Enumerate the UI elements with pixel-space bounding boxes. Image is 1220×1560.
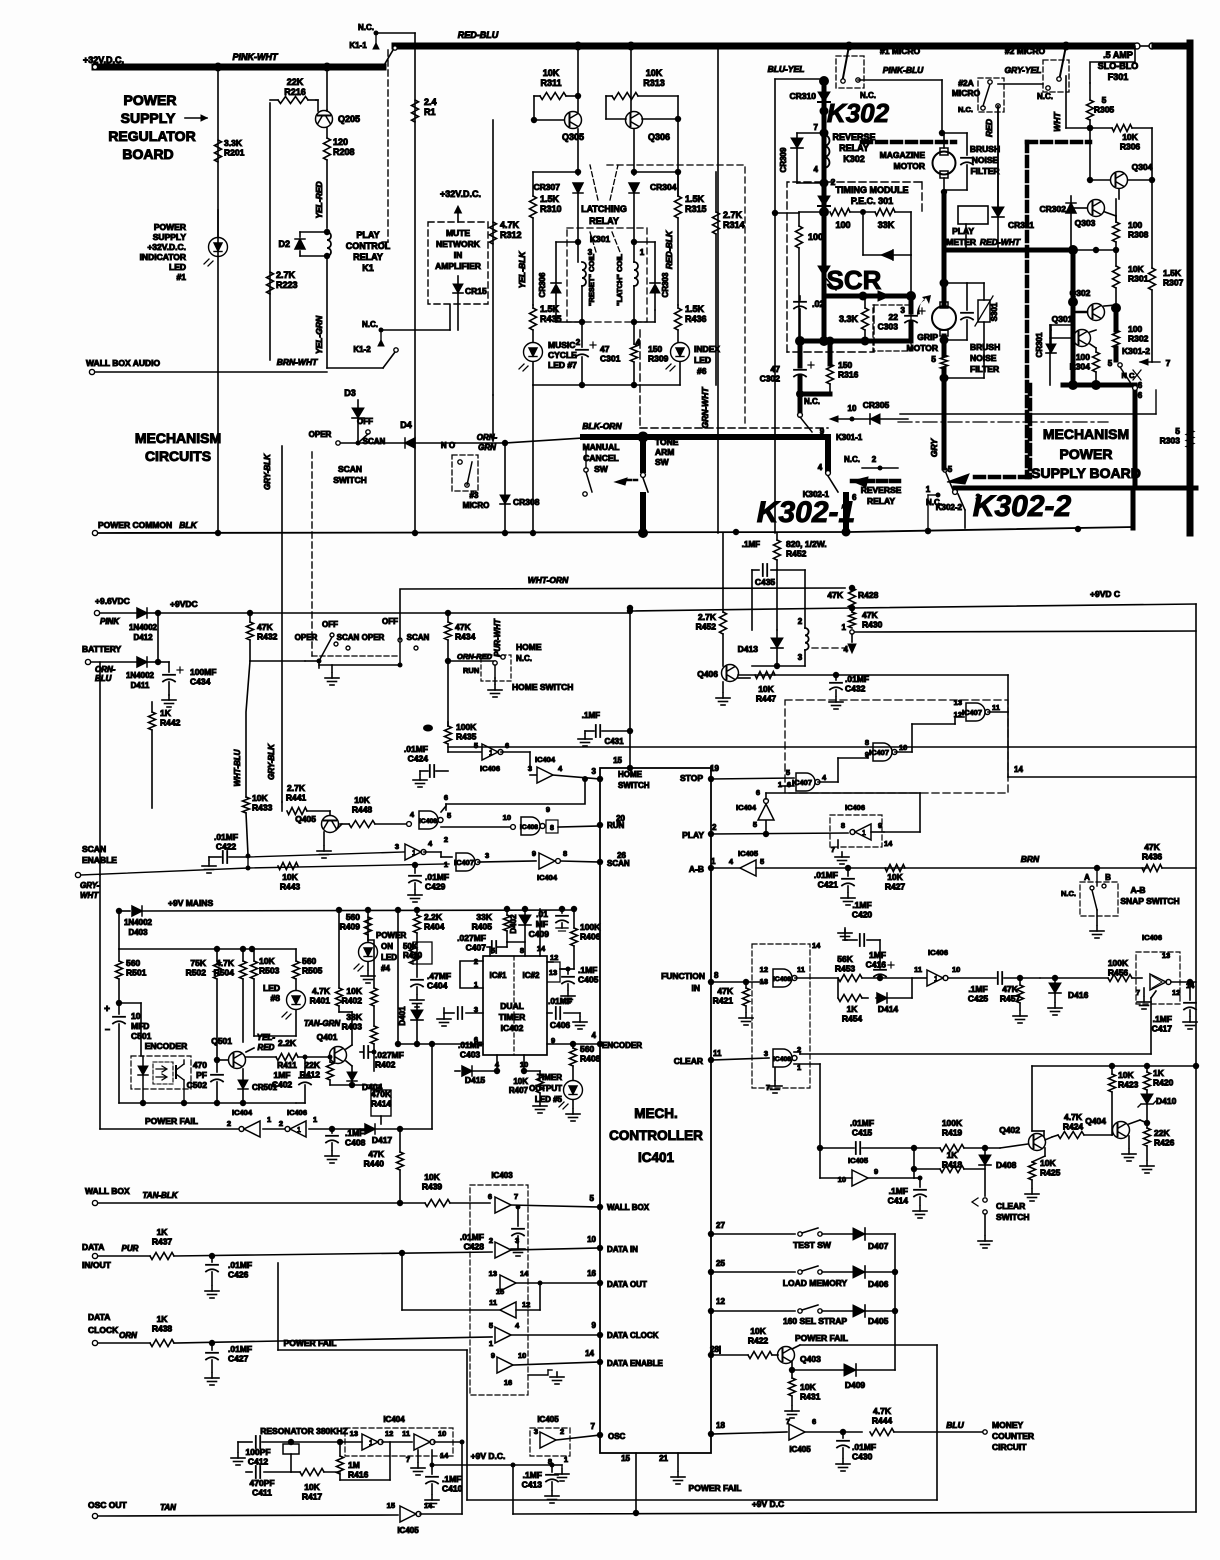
wire reverse dash bbox=[852, 479, 900, 484]
wire r401 bot bbox=[339, 1011, 352, 1013]
svg-text:12: 12 bbox=[522, 1300, 530, 1309]
svg-text:10KR439: 10KR439 bbox=[422, 1172, 443, 1192]
resistor R432 47K bbox=[249, 613, 251, 622]
svg-text:7: 7 bbox=[591, 1422, 596, 1431]
svg-text:1: 1 bbox=[267, 1115, 271, 1124]
gate IC407b bbox=[873, 743, 897, 761]
svg-text:CIRCUITS: CIRCUITS bbox=[145, 448, 211, 464]
svg-text:7: 7 bbox=[514, 1192, 518, 1201]
svg-text:8: 8 bbox=[520, 946, 524, 955]
svg-text:2: 2 bbox=[712, 823, 717, 832]
svg-text:PLAY: PLAY bbox=[682, 830, 704, 840]
diode CR301 bbox=[1050, 330, 1052, 344]
svg-text:GRY-BLK: GRY-BLK bbox=[263, 453, 272, 490]
dash mech board top bbox=[639, 330, 641, 428]
svg-text:470PFC411: 470PFC411 bbox=[249, 1478, 274, 1498]
capacitor brush filter bbox=[961, 157, 973, 159]
svg-text:–: – bbox=[105, 1024, 110, 1034]
svg-text:WHT-ORN: WHT-ORN bbox=[528, 575, 569, 585]
svg-text:9: 9 bbox=[491, 1351, 495, 1360]
motor grip bbox=[932, 306, 956, 330]
svg-text:6: 6 bbox=[812, 1417, 816, 1426]
svg-text:OFF: OFF bbox=[322, 620, 338, 629]
wire K302 coil bus bbox=[822, 81, 827, 210]
wire pin1 col bbox=[819, 1064, 821, 1178]
svg-text:10KR427: 10KR427 bbox=[885, 872, 906, 892]
wire scr gate bbox=[824, 276, 836, 290]
diode CR15 bbox=[453, 284, 463, 293]
diode CR309 bbox=[796, 133, 798, 138]
resistor R448 10K bbox=[340, 823, 349, 825]
resistor R315 1.5K bbox=[677, 172, 679, 196]
svg-text:IC407: IC407 bbox=[454, 858, 474, 867]
wire r406 to 13 bbox=[560, 968, 574, 970]
svg-text:100KR435: 100KR435 bbox=[456, 722, 477, 742]
svg-text:TAN-BLK: TAN-BLK bbox=[143, 1191, 179, 1200]
resistor 100 h bbox=[830, 209, 850, 216]
wire clear out long bbox=[800, 1053, 1151, 1055]
wire se line2 bbox=[81, 864, 446, 875]
svg-text:10KR306: 10KR306 bbox=[1120, 132, 1141, 152]
wire q302 thick bbox=[1114, 308, 1119, 330]
svg-text:DATA ENABLE: DATA ENABLE bbox=[607, 1359, 664, 1368]
wire q305 col bbox=[577, 46, 579, 112]
switch 160 SEL bbox=[798, 1309, 802, 1313]
svg-text:A: A bbox=[1084, 873, 1090, 882]
svg-text:BRUSH: BRUSH bbox=[970, 342, 1000, 352]
dash-dot bbox=[898, 421, 1108, 423]
gate IC403f bbox=[497, 1357, 513, 1373]
wire cr309 bottom bbox=[797, 182, 824, 184]
svg-text:R428: R428 bbox=[858, 590, 879, 600]
dashed timing box bbox=[787, 182, 922, 352]
svg-text:.01MFC403: .01MFC403 bbox=[458, 1040, 482, 1060]
svg-text:D413: D413 bbox=[738, 644, 759, 654]
varistor S301 bbox=[983, 283, 985, 300]
svg-text:YEL-GRN: YEL-GRN bbox=[314, 315, 324, 354]
svg-text:12: 12 bbox=[716, 1297, 725, 1306]
svg-text:N C: N C bbox=[1122, 371, 1136, 380]
wire red-blu bus bbox=[395, 43, 1133, 50]
svg-text:POWER FAIL: POWER FAIL bbox=[689, 1483, 742, 1493]
svg-text:14: 14 bbox=[440, 1451, 449, 1460]
svg-text:CONTROLLER: CONTROLLER bbox=[609, 1128, 703, 1143]
wire func in bbox=[711, 981, 766, 983]
wire +32VDC pink-wht bus bbox=[95, 64, 383, 71]
svg-text:#8: #8 bbox=[271, 993, 281, 1003]
wire enc loop bbox=[119, 1002, 141, 1004]
diode CR304 bbox=[629, 183, 639, 193]
svg-text:IC401: IC401 bbox=[638, 1150, 675, 1165]
svg-text:.01: .01 bbox=[536, 909, 548, 919]
wire k302-1 col bbox=[722, 533, 724, 588]
resistor R216 22K bbox=[278, 97, 308, 104]
svg-text:DATA: DATA bbox=[82, 1242, 104, 1252]
capacitor C435 bbox=[752, 569, 759, 571]
svg-text:RUN: RUN bbox=[607, 821, 625, 830]
svg-text:POWER FAIL: POWER FAIL bbox=[795, 1333, 848, 1343]
svg-text:RUN: RUN bbox=[463, 666, 479, 675]
wire 2a micro down bbox=[997, 106, 999, 213]
wire blu-yel bbox=[775, 78, 820, 80]
wire home sw bbox=[448, 660, 495, 662]
transistor Q303 bbox=[1088, 200, 1105, 217]
wire orn-grn bbox=[455, 442, 505, 444]
svg-text:DATA: DATA bbox=[88, 1312, 110, 1322]
svg-text:LED #7: LED #7 bbox=[548, 360, 577, 370]
svg-text:GRY-BLK: GRY-BLK bbox=[267, 743, 276, 780]
blob bbox=[423, 725, 433, 732]
svg-text:RED: RED bbox=[258, 1043, 275, 1052]
svg-text:IC402: IC402 bbox=[501, 1023, 524, 1033]
svg-text:N O: N O bbox=[441, 441, 455, 450]
svg-text:1N4002: 1N4002 bbox=[126, 671, 155, 680]
svg-text:IC404: IC404 bbox=[383, 1415, 405, 1424]
resistor R505 560 bbox=[295, 949, 297, 961]
dashed c303 box bbox=[873, 305, 911, 351]
svg-text:POWER: POWER bbox=[124, 92, 177, 108]
svg-text:IC407: IC407 bbox=[869, 748, 889, 757]
svg-text:#2A: #2A bbox=[958, 78, 974, 88]
svg-text:SWITCH: SWITCH bbox=[618, 781, 650, 790]
svg-text:MICRO: MICRO bbox=[952, 88, 981, 98]
resistor R503 10K bbox=[251, 961, 258, 979]
gate IC403e bbox=[495, 1327, 511, 1343]
svg-text:#6: #6 bbox=[697, 366, 707, 376]
wire d40x col bbox=[894, 1311, 896, 1370]
capacitor C302 47 bbox=[798, 341, 803, 366]
svg-text:8: 8 bbox=[563, 849, 567, 858]
svg-text:7: 7 bbox=[1136, 988, 1140, 997]
svg-text:2.2KR404: 2.2KR404 bbox=[424, 912, 445, 932]
svg-text:MAGAZINE: MAGAZINE bbox=[880, 150, 926, 160]
svg-text:13: 13 bbox=[760, 977, 768, 986]
svg-text:9: 9 bbox=[874, 1167, 878, 1176]
svg-text:4.7KR312: 4.7KR312 bbox=[500, 220, 522, 240]
svg-text:Q301: Q301 bbox=[1052, 314, 1073, 324]
svg-text:BRN: BRN bbox=[1021, 854, 1040, 864]
svg-text:.1MFC425: .1MFC425 bbox=[968, 984, 989, 1004]
svg-text:10KR448: 10KR448 bbox=[352, 795, 373, 815]
wire osc out bbox=[98, 1515, 398, 1516]
gate IC403a bbox=[495, 1197, 511, 1213]
dashed encoder box bbox=[131, 1056, 191, 1089]
svg-text:DUAL: DUAL bbox=[500, 1001, 524, 1011]
svg-text:2: 2 bbox=[279, 1119, 283, 1128]
svg-text:14: 14 bbox=[424, 1501, 433, 1510]
relay K1 coil bbox=[327, 232, 331, 256]
svg-text:ORN-RED: ORN-RED bbox=[457, 652, 493, 661]
svg-text:SW: SW bbox=[594, 464, 609, 474]
wire ic406a out bbox=[529, 752, 531, 770]
wire d401 top bbox=[416, 977, 418, 1004]
svg-text:TAN: TAN bbox=[160, 1503, 176, 1512]
svg-text:OSC: OSC bbox=[608, 1432, 626, 1441]
wire q501 out bbox=[246, 1048, 254, 1052]
svg-text:TAN-GRN: TAN-GRN bbox=[304, 1019, 341, 1028]
svg-text:N.C.: N.C. bbox=[516, 654, 532, 663]
transistor Q302 bbox=[1088, 304, 1105, 321]
svg-text:11: 11 bbox=[402, 1429, 410, 1438]
svg-text:Q305: Q305 bbox=[562, 132, 584, 142]
svg-text:8: 8 bbox=[841, 821, 845, 830]
svg-text:ENCODER: ENCODER bbox=[602, 1041, 642, 1050]
thick scr node bbox=[822, 296, 827, 341]
wire home loop bbox=[582, 776, 588, 782]
svg-text:IC408: IC408 bbox=[773, 1056, 791, 1063]
svg-text:100KR419: 100KR419 bbox=[942, 1118, 963, 1138]
svg-text:TONE: TONE bbox=[655, 437, 679, 447]
wire pf net col bbox=[936, 1345, 938, 1500]
svg-text:ENCODER: ENCODER bbox=[145, 1041, 188, 1051]
resistor R313 10K bbox=[606, 95, 612, 97]
heavy dash boundary bbox=[862, 140, 955, 145]
svg-text:MF: MF bbox=[536, 919, 548, 929]
wire k301-2 down bbox=[1133, 390, 1138, 487]
svg-text:2.4R1: 2.4R1 bbox=[424, 97, 437, 117]
capacitor C421 .01MF bbox=[845, 865, 851, 871]
svg-text:POWER: POWER bbox=[376, 931, 406, 940]
svg-text:1: 1 bbox=[862, 830, 866, 837]
svg-text:K301-2: K301-2 bbox=[1122, 346, 1150, 356]
svg-text:11: 11 bbox=[992, 703, 1000, 712]
svg-text:12: 12 bbox=[550, 953, 558, 962]
wire latch bottoms bbox=[555, 310, 557, 322]
svg-text:470: 470 bbox=[193, 1060, 207, 1070]
svg-text:13: 13 bbox=[1162, 951, 1170, 960]
wire enc rail bbox=[118, 911, 120, 949]
svg-text:9: 9 bbox=[546, 805, 550, 814]
svg-text:5: 5 bbox=[753, 820, 757, 829]
svg-text:9: 9 bbox=[878, 821, 882, 830]
svg-text:#3: #3 bbox=[470, 491, 479, 500]
svg-text:1N4002: 1N4002 bbox=[129, 623, 158, 632]
svg-text:+9V MAINS: +9V MAINS bbox=[168, 898, 213, 908]
resistor R1 2.4 bbox=[412, 100, 419, 122]
diode D407 bbox=[853, 1228, 865, 1240]
wire pur-wht up bbox=[502, 588, 504, 657]
wire r432 to switch bbox=[250, 660, 305, 662]
svg-text:MECHANISM: MECHANISM bbox=[1043, 426, 1129, 442]
resistor R443 10K bbox=[278, 863, 298, 870]
svg-text:IC407: IC407 bbox=[962, 708, 982, 717]
wire pf vert bbox=[431, 1044, 433, 1129]
grip arrow bbox=[917, 295, 931, 315]
svg-text:D414: D414 bbox=[878, 1004, 899, 1014]
svg-text:IC408: IC408 bbox=[419, 818, 437, 825]
svg-text:4: 4 bbox=[592, 1031, 597, 1040]
svg-text:MECHANISM: MECHANISM bbox=[135, 430, 221, 446]
resistor R452b 2.7K bbox=[720, 612, 727, 634]
svg-text:GRY-: GRY- bbox=[80, 881, 100, 890]
svg-text:7: 7 bbox=[406, 1455, 410, 1464]
svg-text:BLK-ORN: BLK-ORN bbox=[582, 421, 622, 431]
svg-text:BLU: BLU bbox=[946, 1420, 964, 1430]
svg-text:13: 13 bbox=[549, 968, 557, 977]
resistor R436b 47K bbox=[1142, 865, 1162, 872]
wire b-a link bbox=[912, 723, 955, 725]
svg-text:4: 4 bbox=[844, 645, 849, 654]
transistor Q305 bbox=[565, 112, 582, 129]
svg-text:6: 6 bbox=[756, 788, 760, 797]
svg-text:K1-1: K1-1 bbox=[349, 41, 367, 50]
svg-text:D406: D406 bbox=[868, 1279, 889, 1289]
svg-text:RED-BLK: RED-BLK bbox=[664, 230, 674, 269]
svg-text:.01MFC415: .01MFC415 bbox=[850, 1118, 874, 1138]
diode CR307 bbox=[573, 183, 583, 193]
switch TEST SW bbox=[798, 1232, 802, 1236]
svg-text:CR311: CR311 bbox=[1008, 220, 1034, 230]
wire k302-2 bottom bbox=[964, 510, 966, 528]
svg-text:3: 3 bbox=[515, 1236, 519, 1245]
resistor R428 47K bbox=[849, 588, 856, 608]
svg-text:N.C.: N.C. bbox=[804, 397, 820, 406]
resistor R427 10K bbox=[885, 865, 905, 872]
wire bottom thick q30x bbox=[1063, 383, 1135, 388]
gate IC404e bbox=[362, 1434, 383, 1450]
svg-text:N.C.: N.C. bbox=[1061, 889, 1076, 898]
resistor R311 10K bbox=[534, 95, 540, 97]
svg-text:RED-WHT: RED-WHT bbox=[980, 237, 1021, 247]
svg-text:IC404: IC404 bbox=[535, 755, 556, 764]
svg-text:2: 2 bbox=[444, 835, 448, 844]
resistor R208 120 bbox=[326, 128, 328, 138]
svg-text:6: 6 bbox=[444, 793, 448, 802]
svg-text:ARM: ARM bbox=[655, 447, 674, 457]
svg-text:11: 11 bbox=[489, 1298, 497, 1307]
svg-text:D411: D411 bbox=[131, 681, 150, 690]
svg-text:5: 5 bbox=[760, 857, 764, 866]
svg-text:D2: D2 bbox=[278, 239, 290, 249]
diode D401 sym bbox=[416, 1004, 418, 1010]
svg-text:Q406: Q406 bbox=[697, 669, 718, 679]
wire K301-1 down bbox=[825, 437, 831, 470]
wire 4.7K R312 col bbox=[492, 120, 494, 395]
svg-text:100: 100 bbox=[835, 220, 850, 230]
wire q306 right bbox=[642, 118, 678, 120]
svg-text:.02: .02 bbox=[812, 299, 825, 309]
svg-text:GRIP: GRIP bbox=[917, 332, 938, 342]
svg-text:100: 100 bbox=[808, 232, 823, 242]
svg-text:Q402: Q402 bbox=[999, 1125, 1020, 1135]
svg-text:LED: LED bbox=[263, 983, 280, 993]
svg-text:IC405: IC405 bbox=[397, 1526, 419, 1535]
svg-text:GRY: GRY bbox=[929, 438, 939, 458]
svg-text:10: 10 bbox=[503, 813, 511, 822]
svg-text:22KR216: 22KR216 bbox=[284, 77, 306, 97]
svg-text:IC406: IC406 bbox=[480, 764, 500, 773]
wire 9v into c413 bbox=[551, 1464, 562, 1466]
thick scr bottom bbox=[800, 339, 911, 344]
svg-text:6: 6 bbox=[488, 1192, 492, 1201]
svg-text:WHT-BLU: WHT-BLU bbox=[233, 749, 242, 786]
svg-text:CR302: CR302 bbox=[1040, 204, 1067, 214]
svg-text:SCAN: SCAN bbox=[607, 859, 630, 868]
svg-text:.01MFC421: .01MFC421 bbox=[814, 870, 838, 890]
thick bottom mpsb bbox=[955, 486, 1196, 491]
svg-text:IC405: IC405 bbox=[848, 1156, 868, 1165]
svg-text:Q405: Q405 bbox=[295, 814, 316, 824]
svg-text:1: 1 bbox=[369, 1440, 373, 1447]
diode D406 bbox=[853, 1266, 865, 1278]
svg-text:COUNTER: COUNTER bbox=[992, 1431, 1034, 1441]
svg-text:10KR313: 10KR313 bbox=[643, 68, 665, 88]
LED #7 music cycle bbox=[532, 330, 534, 342]
svg-text:4: 4 bbox=[818, 463, 823, 472]
wire pin12 bbox=[547, 961, 553, 963]
svg-text:1: 1 bbox=[412, 850, 416, 857]
svg-text:TIMER: TIMER bbox=[499, 1012, 525, 1022]
svg-text:2: 2 bbox=[872, 455, 877, 464]
resistor R305 5 bbox=[1087, 100, 1094, 120]
svg-text:+32V.D.C.: +32V.D.C. bbox=[83, 55, 124, 65]
diode CR306 bbox=[555, 242, 557, 283]
wire scan link dash bbox=[311, 452, 313, 656]
svg-text:IC403: IC403 bbox=[491, 1171, 513, 1180]
svg-text:2.7KR441: 2.7KR441 bbox=[286, 783, 307, 803]
svg-text:1.5KR310: 1.5KR310 bbox=[540, 194, 562, 214]
svg-text:ORN: ORN bbox=[119, 1331, 137, 1340]
svg-text:K302: K302 bbox=[843, 154, 865, 164]
svg-text:SUPPLY: SUPPLY bbox=[153, 232, 187, 242]
svg-text:2: 2 bbox=[576, 338, 581, 347]
switch LOAD MEMORY bbox=[798, 1270, 802, 1274]
svg-text:.1MFC405: .1MFC405 bbox=[578, 965, 599, 985]
svg-text:7: 7 bbox=[1166, 358, 1171, 368]
svg-text:7: 7 bbox=[831, 845, 835, 854]
svg-text:#1: #1 bbox=[177, 272, 187, 282]
svg-text:1N4002: 1N4002 bbox=[124, 918, 153, 927]
svg-text:14: 14 bbox=[812, 941, 821, 950]
svg-text:SNAP SWITCH: SNAP SWITCH bbox=[1120, 896, 1179, 906]
svg-text:100PFC412: 100PFC412 bbox=[245, 1447, 270, 1467]
svg-text:3: 3 bbox=[528, 764, 532, 773]
svg-text:D408: D408 bbox=[996, 1160, 1017, 1170]
wire q304 col bbox=[1151, 180, 1153, 268]
svg-text:MONEY: MONEY bbox=[992, 1420, 1024, 1430]
svg-text:INDICATOR: INDICATOR bbox=[140, 252, 186, 262]
svg-text:DATA CLOCK: DATA CLOCK bbox=[607, 1331, 659, 1340]
svg-text:CR304: CR304 bbox=[650, 182, 677, 192]
capacitor C434 100MF bbox=[158, 661, 169, 663]
svg-text:K302: K302 bbox=[827, 98, 890, 128]
svg-text:P.E.C. 301: P.E.C. 301 bbox=[851, 196, 893, 206]
svg-text:.1MFC420: .1MFC420 bbox=[852, 900, 873, 920]
svg-text:11: 11 bbox=[797, 965, 805, 974]
wire c435 col bbox=[776, 570, 778, 630]
dashed latching box bbox=[567, 228, 647, 322]
svg-text:CR309: CR309 bbox=[779, 147, 788, 172]
svg-text:1: 1 bbox=[842, 623, 847, 632]
svg-text:.5 AMP: .5 AMP bbox=[1103, 50, 1133, 60]
IC401 box bbox=[600, 768, 711, 1453]
box pin13 bbox=[548, 962, 560, 982]
wire gry-yel bbox=[998, 83, 1043, 85]
svg-text:D402: D402 bbox=[509, 914, 518, 934]
wire R201 bbox=[217, 67, 219, 530]
transistor Q405 bbox=[322, 816, 339, 833]
wire 100v top bbox=[798, 211, 800, 213]
svg-text:7: 7 bbox=[786, 1417, 790, 1426]
svg-text:6: 6 bbox=[505, 741, 509, 750]
resistor R312 4.7K bbox=[490, 222, 497, 244]
capacitor C429 .01MF bbox=[412, 862, 418, 868]
svg-text:.1MFC417: .1MFC417 bbox=[1152, 1014, 1173, 1034]
svg-text:K302-2: K302-2 bbox=[936, 503, 963, 512]
wire bottom to blkorn bbox=[532, 384, 534, 386]
svg-text:LED: LED bbox=[169, 262, 186, 272]
svg-text:14: 14 bbox=[537, 944, 546, 953]
